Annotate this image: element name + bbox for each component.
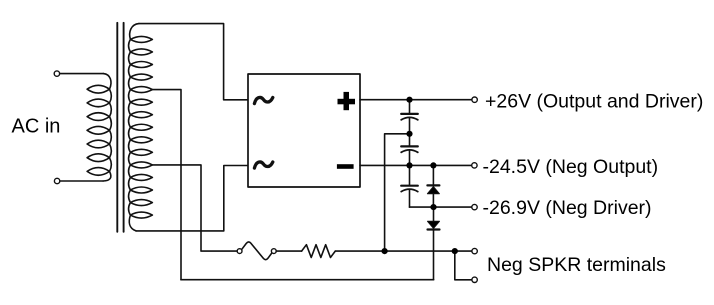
bridge plus symbol xyxy=(338,92,356,110)
wire Neg SPKR bottom branch xyxy=(455,251,472,280)
wire tap1 xyxy=(152,90,181,280)
terminal AC top xyxy=(54,71,59,76)
fuse F1 xyxy=(237,242,276,260)
transformer T1 primary winding xyxy=(87,74,111,181)
bridge minus symbol xyxy=(337,164,354,169)
bridge AC symbol top xyxy=(254,97,272,103)
svg-text:-24.5V (Neg Output): -24.5V (Neg Output) xyxy=(483,156,659,178)
wire tap2 xyxy=(152,165,237,251)
terminal +26V xyxy=(472,97,477,102)
junction xyxy=(430,162,436,168)
svg-text:AC in: AC in xyxy=(12,116,61,138)
capacitor C1 xyxy=(401,100,418,134)
bridge AC symbol bottom xyxy=(254,162,272,168)
wire lower rail xyxy=(181,279,434,281)
wire xyxy=(276,250,301,252)
junction xyxy=(406,162,412,168)
capacitor C3 xyxy=(401,165,418,207)
wire +26V rail xyxy=(360,99,472,101)
junction xyxy=(430,204,436,210)
transformer T1 secondary winding xyxy=(129,24,153,231)
svg-text:+26V (Output and Driver): +26V (Output and Driver) xyxy=(485,90,703,112)
wire xyxy=(60,73,104,75)
terminal -26.9V xyxy=(472,204,477,209)
junction xyxy=(452,248,458,254)
junction xyxy=(406,131,412,137)
transformer core xyxy=(117,23,123,232)
capacitor C2 xyxy=(401,134,418,166)
terminal Neg SPKR top xyxy=(472,248,477,253)
wire xyxy=(60,180,103,182)
terminal Neg SPKR bottom xyxy=(472,277,477,282)
svg-text:-26.9V (Neg Driver): -26.9V (Neg Driver) xyxy=(483,197,652,219)
diode D2 xyxy=(428,207,440,280)
resistor R1 xyxy=(302,245,336,258)
wire secondary top to bridge xyxy=(139,24,248,100)
svg-text:Neg SPKR terminals: Neg SPKR terminals xyxy=(487,254,666,276)
junction xyxy=(406,97,412,103)
wire -26.9V rail xyxy=(410,206,472,208)
wire -24.5V rail xyxy=(360,164,472,166)
terminal AC bottom xyxy=(54,178,59,183)
wire mid-cap junction to bottom rail xyxy=(385,134,410,251)
wire Neg SPKR rail xyxy=(335,250,472,252)
terminal -24.5V xyxy=(472,163,477,168)
bridge rectifier xyxy=(248,74,360,187)
wire secondary bottom to bridge xyxy=(136,166,248,231)
junction xyxy=(382,248,388,254)
diode D1 xyxy=(427,165,439,207)
